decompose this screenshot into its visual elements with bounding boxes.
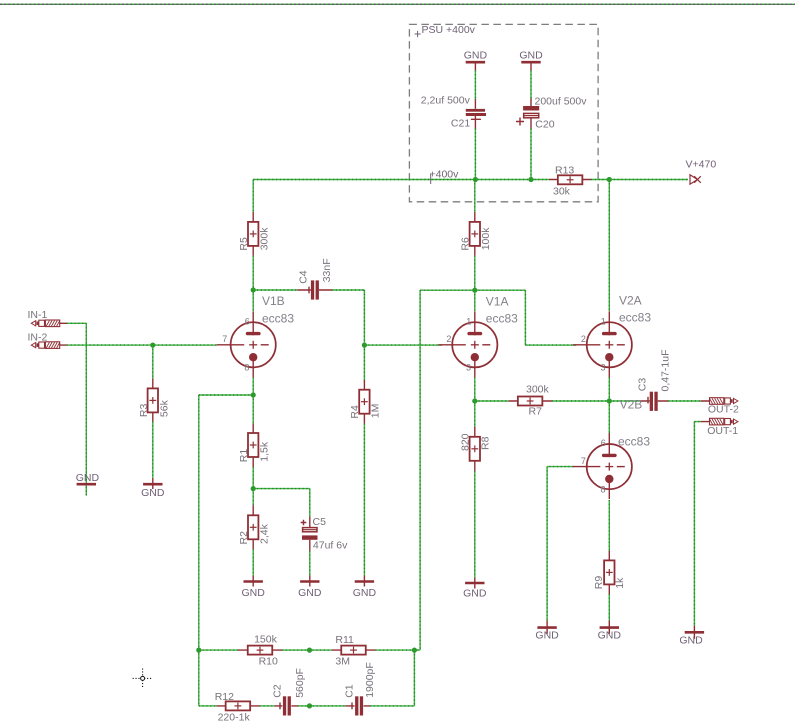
svg-text:R4: R4 xyxy=(349,405,361,419)
svg-text:IN-2: IN-2 xyxy=(28,331,48,343)
svg-text:30k: 30k xyxy=(553,186,571,198)
svg-text:1: 1 xyxy=(601,316,606,326)
svg-text:6: 6 xyxy=(601,438,606,448)
svg-text:ecc83: ecc83 xyxy=(619,310,651,324)
svg-text:C5: C5 xyxy=(313,516,327,528)
svg-text:OUT-2: OUT-2 xyxy=(708,403,739,415)
svg-text:C20: C20 xyxy=(535,118,554,130)
svg-text:GND: GND xyxy=(353,587,377,599)
svg-text:33nF: 33nF xyxy=(321,258,333,282)
svg-text:R7: R7 xyxy=(529,405,543,417)
svg-text:GND: GND xyxy=(76,472,100,484)
svg-text:GND: GND xyxy=(242,587,266,599)
svg-text:1M: 1M xyxy=(370,404,382,419)
svg-text:OUT-1: OUT-1 xyxy=(707,425,738,437)
svg-text:6: 6 xyxy=(245,316,250,326)
svg-text:560pF: 560pF xyxy=(294,668,306,698)
svg-text:C2: C2 xyxy=(271,684,283,698)
svg-text:100k: 100k xyxy=(480,227,492,251)
svg-text:1k: 1k xyxy=(614,577,626,589)
svg-text:V2A: V2A xyxy=(619,294,642,308)
svg-text:ecc83: ecc83 xyxy=(486,311,518,325)
svg-text:0,47-1uF: 0,47-1uF xyxy=(659,349,671,391)
svg-text:R13: R13 xyxy=(555,165,574,177)
svg-text:R8: R8 xyxy=(479,436,491,450)
svg-text:C21: C21 xyxy=(451,118,470,130)
svg-text:56k: 56k xyxy=(158,399,170,417)
svg-text:47uf 6v: 47uf 6v xyxy=(313,539,348,551)
svg-text:ecc83: ecc83 xyxy=(262,311,294,325)
svg-text:V2B: V2B xyxy=(620,398,643,412)
svg-text:220-1k: 220-1k xyxy=(218,712,251,722)
svg-text:GND: GND xyxy=(519,50,543,62)
svg-text:V+470: V+470 xyxy=(686,158,717,170)
svg-text:C3: C3 xyxy=(636,378,648,392)
svg-text:ecc83: ecc83 xyxy=(618,434,650,448)
svg-text:2: 2 xyxy=(581,334,586,344)
svg-text:R2: R2 xyxy=(238,531,250,545)
svg-text:2,4k: 2,4k xyxy=(259,523,271,544)
svg-text:300k: 300k xyxy=(526,383,550,395)
svg-text:GND: GND xyxy=(598,630,622,642)
svg-text:2,2uf 500v: 2,2uf 500v xyxy=(421,95,471,107)
svg-text:R11: R11 xyxy=(335,634,354,646)
svg-text:C4: C4 xyxy=(298,270,310,284)
svg-text:1,5k: 1,5k xyxy=(259,441,271,462)
svg-text:+400v: +400v xyxy=(430,169,460,181)
svg-text:GND: GND xyxy=(141,487,165,499)
svg-text:200uf 500v: 200uf 500v xyxy=(535,96,588,108)
svg-text:R6: R6 xyxy=(460,237,472,251)
svg-text:300k: 300k xyxy=(259,227,271,251)
svg-text:R10: R10 xyxy=(259,655,278,667)
svg-text:V1A: V1A xyxy=(486,294,509,308)
svg-text:820: 820 xyxy=(459,433,471,451)
svg-text:GND: GND xyxy=(679,635,703,647)
svg-text:PSU +400v: PSU +400v xyxy=(422,24,476,36)
svg-text:R12: R12 xyxy=(215,691,234,703)
svg-text:3: 3 xyxy=(466,363,471,373)
svg-text:GND: GND xyxy=(535,630,559,642)
svg-text:2: 2 xyxy=(446,334,451,344)
svg-text:150k: 150k xyxy=(254,634,278,646)
svg-text:V1B: V1B xyxy=(262,294,285,308)
svg-text:GND: GND xyxy=(463,588,487,600)
svg-text:3M: 3M xyxy=(335,655,350,667)
svg-text:C1: C1 xyxy=(344,684,356,698)
svg-text:R5: R5 xyxy=(238,237,250,251)
svg-text:8: 8 xyxy=(601,484,606,494)
svg-text:1: 1 xyxy=(466,316,471,326)
svg-text:R3: R3 xyxy=(138,404,150,418)
svg-text:GND: GND xyxy=(298,587,322,599)
svg-text:1900pF: 1900pF xyxy=(364,662,376,698)
svg-text:8: 8 xyxy=(244,363,249,373)
svg-text:GND: GND xyxy=(464,50,488,62)
svg-text:7: 7 xyxy=(222,334,227,344)
svg-text:R9: R9 xyxy=(593,576,605,590)
svg-text:R1: R1 xyxy=(238,449,250,463)
svg-text:IN-1: IN-1 xyxy=(28,309,48,321)
svg-text:3: 3 xyxy=(601,363,606,373)
svg-text:7: 7 xyxy=(581,456,586,466)
